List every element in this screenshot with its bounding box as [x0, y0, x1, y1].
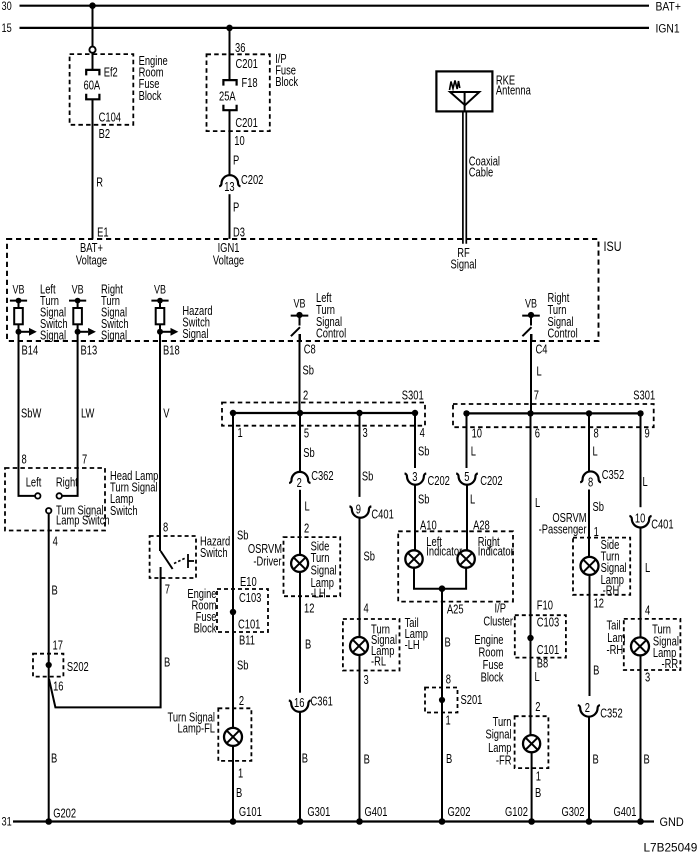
svg-text:IGN1: IGN1 [656, 23, 680, 36]
svg-text:ISU: ISU [604, 239, 622, 254]
svg-text:Sb: Sb [418, 494, 429, 508]
ground G202 (S201) [439, 806, 471, 825]
node RF Signal [450, 247, 476, 272]
svg-text:L: L [593, 446, 598, 460]
svg-text:2: 2 [303, 389, 308, 403]
svg-text:Sb: Sb [237, 659, 248, 673]
side turn signal lamp RH bulb [581, 557, 599, 575]
power rail 15 (IGN1) [2, 23, 680, 36]
RKE antenna box [436, 71, 492, 111]
wire B14 to turn signal lamp switch pin 8, colour SbW [19, 341, 42, 496]
svg-text:C202: C202 [480, 475, 502, 489]
svg-text:3: 3 [363, 427, 368, 441]
labels B8 L 2 on front lamp FR feed [535, 657, 549, 714]
junction on rail 30 [89, 2, 96, 9]
svg-text:B: B [302, 752, 308, 766]
svg-text:2: 2 [585, 702, 590, 716]
svg-text:C8: C8 [304, 343, 316, 357]
in-line connector C202 pin 13 [219, 174, 263, 194]
svg-text:Cluster: Cluster [483, 615, 513, 629]
svg-text:E10: E10 [240, 576, 257, 590]
svg-text:4: 4 [53, 535, 58, 549]
ISU driver: Right Turn Signal Switch Signal [69, 283, 129, 343]
turn signal lamp RL box [343, 619, 400, 671]
wire rail30 to fuse Ef2 [92, 6, 94, 47]
svg-text:4: 4 [420, 427, 425, 441]
svg-text:C401: C401 [371, 508, 393, 522]
svg-text:Cable: Cable [469, 166, 493, 180]
node E1 BAT+ Voltage [76, 242, 107, 268]
wire B13 to turn signal lamp switch pin 7, colour LW [62, 341, 95, 496]
svg-text:B: B [446, 753, 452, 767]
svg-text:Right: Right [56, 476, 78, 490]
svg-text:-RR: -RR [662, 658, 679, 672]
turn signal lamp switch contacts [26, 476, 110, 528]
ground G302 [562, 806, 593, 825]
svg-text:-LH: -LH [405, 639, 420, 653]
junction inside right fuse block [527, 635, 533, 641]
svg-text:10: 10 [635, 512, 645, 526]
RKE antenna label [496, 74, 532, 97]
ISU driver: Left Turn Signal Switch Signal [10, 283, 68, 343]
ground G102 [505, 806, 535, 825]
svg-text:B18: B18 [163, 344, 180, 358]
in-line connector C352 pin 2 [578, 702, 623, 721]
svg-text:VB: VB [294, 297, 306, 311]
I/P fuse block box [207, 54, 270, 131]
svg-text:Ef2: Ef2 [104, 66, 118, 80]
svg-text:S301: S301 [633, 389, 655, 403]
svg-text:C401: C401 [651, 518, 673, 532]
svg-text:G202: G202 [53, 807, 76, 821]
wire S301 pin 1 to engine room fuse block E10, colour Sb [233, 413, 257, 728]
svg-text:10: 10 [472, 427, 482, 441]
in-line connector C401 pin 9 [349, 503, 393, 521]
splice box S301 left [222, 389, 425, 425]
junction on rail 15 [226, 25, 233, 32]
svg-text:-RH: -RH [607, 644, 624, 658]
svg-text:VB: VB [154, 283, 166, 297]
svg-text:6: 6 [535, 427, 540, 441]
S301 right internal bus [463, 410, 643, 416]
svg-text:5: 5 [464, 471, 469, 485]
in-line connector C202 pin 5 [456, 471, 502, 488]
wire lamp switch pole pin 4 to ground G202, colour B [49, 513, 64, 821]
splice S202 [33, 654, 89, 677]
svg-text:GND: GND [660, 817, 684, 829]
svg-text:B: B [52, 584, 58, 598]
wire hazard switch pin 7 joins S202 wire, colour B [49, 567, 170, 707]
tail lamp RH label [607, 619, 626, 657]
wire C202 to left indicator A10, colour Sb [415, 485, 437, 550]
svg-text:3: 3 [412, 471, 417, 485]
I/P cluster label [483, 602, 513, 628]
svg-text:C103: C103 [537, 617, 559, 631]
svg-text:Signal: Signal [485, 729, 511, 743]
svg-text:1: 1 [238, 427, 243, 441]
svg-text:5: 5 [304, 427, 309, 441]
left indicator bulb [405, 536, 462, 568]
labels B11 Sb 2 on front lamp feed [237, 634, 255, 708]
ground G202 (lamp switch) [45, 807, 76, 824]
in-line connector C361 pin 16 [289, 695, 333, 711]
head lamp turn signal lamp switch box [5, 468, 105, 531]
svg-text:L: L [643, 476, 648, 490]
svg-text:-Passenger: -Passenger [539, 523, 587, 537]
svg-text:B: B [535, 787, 541, 801]
svg-text:Antenna: Antenna [496, 84, 532, 98]
svg-text:Tail: Tail [607, 619, 621, 633]
svg-text:G401: G401 [365, 806, 388, 820]
engine room fuse block pass-through box [217, 589, 268, 632]
wire circle to fuse Ef2 [92, 53, 94, 70]
ground G101 [230, 806, 262, 825]
svg-text:B11: B11 [239, 634, 255, 648]
svg-text:12: 12 [304, 602, 314, 616]
side turn signal lamp RH box [573, 538, 630, 598]
svg-text:B: B [51, 752, 57, 766]
turn signal lamp RR bulb [631, 637, 649, 655]
svg-text:VB: VB [525, 297, 537, 311]
svg-text:G102: G102 [505, 806, 528, 820]
svg-text:-RL: -RL [371, 655, 386, 669]
svg-text:12: 12 [594, 597, 604, 611]
svg-text:L: L [471, 446, 476, 460]
svg-text:C352: C352 [602, 469, 624, 483]
ISU switch: Left Turn Signal Control [291, 292, 346, 341]
svg-text:F10: F10 [537, 599, 553, 613]
svg-text:OSRVM: OSRVM [248, 543, 282, 557]
svg-text:Lamp: Lamp [488, 742, 511, 756]
svg-text:Sb: Sb [364, 550, 375, 564]
svg-text:B8: B8 [537, 657, 548, 671]
svg-text:1: 1 [446, 714, 451, 728]
svg-text:8: 8 [446, 673, 451, 687]
svg-text:1: 1 [536, 770, 541, 784]
svg-text:C4: C4 [536, 343, 548, 357]
svg-text:C101: C101 [238, 618, 260, 632]
I/P cluster box [398, 531, 513, 601]
power rail 30 (BAT+) [2, 1, 681, 14]
wire B18 to hazard switch pin 8, colour V [160, 341, 170, 551]
svg-text:G302: G302 [562, 806, 585, 820]
wire right indicator to junction A25 [442, 568, 466, 589]
in-line connector C352 pin 8 [580, 469, 624, 490]
ground rail 31 (GND) [2, 817, 684, 829]
wire left indicator to junction A25 [414, 568, 442, 589]
svg-text:S202: S202 [67, 661, 89, 675]
hazard switch box [150, 536, 196, 578]
svg-text:2: 2 [297, 477, 302, 491]
engine room fuse block label [139, 55, 168, 103]
svg-text:A28: A28 [473, 519, 490, 533]
svg-text:8: 8 [22, 453, 27, 467]
svg-text:L: L [645, 562, 650, 576]
svg-text:Signal: Signal [40, 329, 66, 343]
svg-text:C202: C202 [241, 174, 263, 188]
svg-text:Sb: Sb [418, 446, 429, 460]
wire lamp LH pin 12 to connector C361, colour B [300, 572, 314, 693]
svg-text:9: 9 [356, 503, 361, 517]
svg-text:8: 8 [588, 476, 593, 490]
svg-text:VB: VB [72, 283, 84, 297]
S301 left internal bus [230, 410, 418, 416]
coaxial cable to ISU [463, 112, 500, 244]
svg-text:2: 2 [535, 701, 540, 715]
wire lamp RR pin 3 to ground G401, colour B [641, 655, 651, 821]
svg-text:Switch: Switch [200, 547, 228, 561]
svg-text:S201: S201 [461, 694, 483, 708]
svg-text:4: 4 [645, 605, 650, 619]
svg-text:9: 9 [645, 427, 650, 441]
svg-text:1: 1 [238, 767, 243, 781]
wire fuse Ef2 to ISU pin E1, colour R [93, 99, 109, 240]
ISU switch: Right Turn Signal Control [522, 292, 577, 341]
svg-text:7: 7 [82, 453, 87, 467]
svg-text:30: 30 [2, 1, 12, 13]
svg-text:R: R [96, 176, 103, 190]
svg-text:C361: C361 [311, 695, 333, 709]
svg-text:F18: F18 [242, 77, 258, 91]
svg-text:B: B [593, 664, 599, 678]
wire C202 to right indicator A28, colour L [467, 485, 490, 550]
svg-text:D3: D3 [233, 226, 245, 240]
turn signal lamp RR box [624, 619, 681, 672]
terminal circle at Ef2 input [89, 47, 95, 53]
svg-text:C201: C201 [235, 117, 257, 131]
wire S301 pin 4 to connector C202, colour Sb [415, 413, 429, 468]
ISU module box [7, 239, 599, 341]
wire S301 pin 5 to connector C362, colour Sb [300, 413, 315, 472]
turn signal lamp RL bulb [350, 637, 368, 655]
svg-text:Indicator: Indicator [478, 545, 514, 559]
svg-text:Sb: Sb [593, 501, 604, 515]
svg-text:B13: B13 [81, 344, 98, 358]
svg-text:Block: Block [139, 90, 162, 104]
svg-text:Sb: Sb [362, 470, 373, 484]
svg-text:36: 36 [235, 42, 245, 56]
svg-text:L: L [537, 365, 542, 379]
svg-text:G202: G202 [448, 806, 471, 820]
head lamp turn signal lamp switch label [110, 470, 158, 518]
svg-text:Signal: Signal [450, 258, 476, 272]
svg-text:3: 3 [364, 674, 369, 688]
splice S201 [425, 688, 482, 713]
svg-text:C352: C352 [600, 707, 622, 721]
svg-text:C101: C101 [537, 644, 559, 658]
svg-text:Voltage: Voltage [76, 254, 107, 268]
engine room fuse block label (mid) [187, 588, 217, 636]
svg-text:B: B [164, 656, 170, 670]
ISU driver: Hazard Switch Signal [151, 283, 212, 341]
svg-text:8: 8 [163, 521, 168, 535]
svg-text:C362: C362 [311, 470, 333, 484]
turn signal lamp FR bulb [523, 735, 540, 752]
RKE antenna symbol [450, 81, 480, 112]
svg-text:Left: Left [26, 476, 42, 490]
svg-text:L: L [470, 494, 475, 508]
svg-text:4: 4 [364, 602, 369, 616]
svg-text:L: L [535, 671, 540, 685]
engine room fuse block box (left) [70, 54, 134, 125]
svg-text:Control: Control [548, 327, 578, 341]
svg-text:LW: LW [81, 407, 95, 421]
svg-text:G401: G401 [614, 806, 637, 820]
svg-text:3: 3 [645, 671, 650, 685]
tail lamp LH label [405, 617, 428, 652]
node D3 IGN1 Voltage [213, 242, 244, 268]
wire C401 to turn signal lamp RL pin 4, colour Sb [360, 518, 375, 637]
wire C352 to side turn signal lamp RH pin 1, colour Sb [589, 490, 604, 557]
svg-text:C103: C103 [239, 592, 261, 606]
svg-text:Sb: Sb [303, 447, 314, 461]
junction inside engine room fuse block [230, 609, 236, 615]
svg-text:2: 2 [304, 523, 309, 537]
ground G301 [297, 806, 331, 825]
wire S301 pin 3 to connector C401, colour Sb [360, 413, 374, 497]
svg-text:Signal: Signal [101, 329, 127, 343]
svg-text:C201: C201 [236, 58, 258, 72]
svg-text:25A: 25A [219, 90, 236, 104]
svg-text:Voltage: Voltage [213, 254, 244, 268]
OSRVM-Passenger label [539, 512, 587, 537]
wire C352 to ground G302, colour B [589, 717, 599, 822]
svg-text:G101: G101 [239, 806, 262, 820]
fuse F18 25A [219, 77, 258, 110]
svg-text:V: V [163, 407, 170, 421]
svg-text:Lamp Switch: Lamp Switch [56, 515, 110, 529]
svg-text:B14: B14 [22, 344, 39, 358]
wire C401 to turn signal lamp RR pin 4, colour L [641, 528, 651, 638]
svg-text:Block: Block [275, 76, 298, 90]
wire C4 to S301 pin 7, colour L [531, 334, 542, 413]
svg-text:7: 7 [165, 583, 170, 597]
svg-text:15: 15 [2, 23, 12, 35]
in-line connector C202 pin 3 [405, 471, 450, 488]
splice box S301 right [453, 389, 655, 427]
svg-text:Control: Control [316, 327, 346, 341]
svg-text:E1: E1 [97, 226, 108, 240]
engine room fuse block pass-through box (right) [515, 615, 566, 657]
svg-text:SbW: SbW [21, 407, 42, 421]
svg-text:L: L [535, 497, 540, 511]
I/P cluster - engine room fuse block label [474, 634, 504, 685]
svg-text:Block: Block [194, 622, 217, 636]
svg-text:Switch: Switch [110, 505, 138, 519]
svg-text:Signal: Signal [182, 328, 208, 342]
svg-text:16: 16 [53, 680, 63, 694]
svg-text:A25: A25 [447, 603, 464, 617]
svg-text:13: 13 [224, 181, 234, 195]
turn signal lamp FL box [167, 708, 251, 761]
svg-text:C104: C104 [99, 111, 121, 125]
svg-text:60A: 60A [84, 79, 101, 93]
svg-text:Lamp-FL: Lamp-FL [178, 723, 215, 737]
svg-text:P: P [233, 201, 239, 215]
svg-text:S301: S301 [402, 389, 424, 403]
wire rail15 to I/P fuse block [230, 28, 258, 80]
svg-text:10: 10 [234, 135, 244, 149]
turn signal lamp FR box [485, 716, 548, 768]
svg-text:C202: C202 [428, 475, 450, 489]
svg-text:B: B [644, 753, 650, 767]
svg-text:L7B25049: L7B25049 [644, 841, 698, 854]
svg-text:Block: Block [481, 671, 504, 685]
svg-text:31: 31 [2, 817, 12, 829]
in-line connector C401 pin 10 [629, 512, 673, 532]
svg-text:L: L [305, 500, 310, 514]
I/P fuse block label [275, 53, 298, 90]
junction of indicators [439, 585, 446, 592]
svg-text:B: B [445, 636, 451, 650]
wire C361 to ground G301, colour B [300, 712, 308, 822]
ground G401 (right) [614, 806, 644, 825]
hazard switch [161, 535, 231, 569]
svg-text:16: 16 [294, 697, 304, 711]
svg-text:B: B [364, 753, 370, 767]
wire S301 pin 10 to connector C202, colour L [467, 413, 483, 468]
ground G401 (left) [356, 806, 387, 825]
wire F18 to connector C202 pin 13, colour P [230, 110, 245, 175]
svg-text:B: B [305, 638, 311, 652]
wire S301 pin 6 to I/P cluster fuse F10, colour L [531, 413, 553, 735]
in-line connector C362 pin 2 [289, 470, 333, 490]
svg-text:8: 8 [594, 427, 599, 441]
svg-text:I/P: I/P [495, 602, 506, 616]
svg-text:VB: VB [13, 283, 25, 297]
svg-text:G301: G301 [307, 806, 330, 820]
svg-text:-LH: -LH [311, 587, 326, 601]
svg-text:B: B [593, 753, 599, 767]
svg-text:Sb: Sb [237, 529, 248, 543]
svg-text:BAT+: BAT+ [656, 1, 681, 14]
svg-text:-Driver: -Driver [253, 555, 281, 569]
wire lamp RH pin 12 to connector C352, colour B [590, 575, 605, 696]
wire C8 to S301 pin 2, colour Sb [300, 334, 314, 413]
svg-text:B: B [236, 787, 242, 801]
svg-text:Sb: Sb [303, 364, 314, 378]
right indicator bulb [457, 536, 514, 568]
wire lamp FL pin 1 to ground G101, colour B [233, 746, 243, 822]
wire lamp RL pin 3 to ground G401, colour B [360, 655, 370, 822]
wire S301 pin 9 to connector C401, colour L [641, 413, 650, 507]
svg-text:2: 2 [239, 695, 244, 709]
svg-text:17: 17 [53, 639, 63, 653]
side turn signal lamp LH box [284, 537, 341, 601]
svg-text:-RH: -RH [603, 585, 620, 599]
OSRVM-Driver label [248, 543, 282, 569]
side turn signal lamp LH bulb [291, 555, 308, 572]
wire lamp FR pin 1 to ground G102, colour B [532, 752, 542, 821]
wire S301 pin 8 to connector C352, colour L [589, 413, 599, 471]
svg-text:P: P [233, 154, 239, 168]
svg-text:B2: B2 [99, 128, 110, 142]
fuse Ef2 60A [84, 66, 118, 99]
turn signal lamp FL bulb [224, 728, 242, 746]
svg-text:7: 7 [534, 389, 539, 403]
wire C202 to ISU pin D3, colour P [230, 194, 245, 240]
wire C362 to side turn signal lamp LH pin 2, colour L [300, 490, 310, 555]
svg-text:-FR: -FR [496, 755, 512, 769]
wire A25 to splice S201, colour B [442, 589, 464, 822]
